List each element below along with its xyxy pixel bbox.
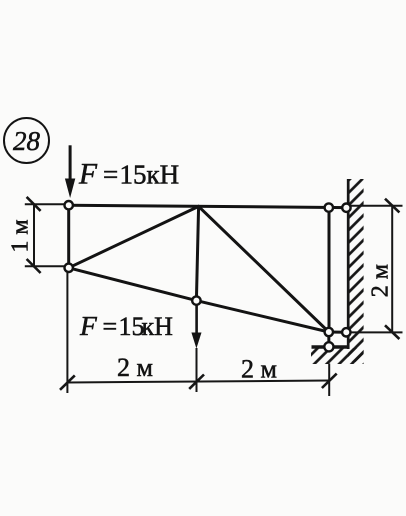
svg-text:F: F: [79, 310, 98, 341]
svg-text:кН: кН: [142, 312, 174, 341]
svg-text:F: F: [78, 159, 98, 191]
svg-text:2 м: 2 м: [241, 355, 277, 384]
svg-text:кН: кН: [147, 159, 180, 189]
svg-text:2 м: 2 м: [117, 353, 153, 382]
svg-text:1 м: 1 м: [7, 219, 33, 252]
svg-text:28: 28: [13, 126, 41, 156]
svg-text:=: =: [103, 312, 118, 341]
svg-text:=: =: [103, 159, 118, 189]
svg-text:15: 15: [120, 159, 147, 189]
svg-text:2 м: 2 м: [368, 264, 394, 297]
